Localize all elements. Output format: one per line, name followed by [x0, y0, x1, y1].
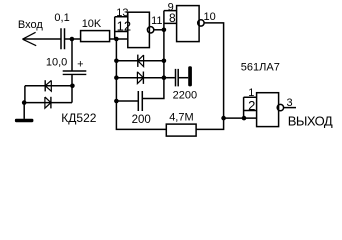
- svg-text:561ЛА7: 561ЛА7: [241, 62, 280, 74]
- svg-text:0,1: 0,1: [54, 12, 69, 24]
- svg-text:12: 12: [117, 19, 131, 34]
- svg-text:13: 13: [116, 7, 128, 19]
- svg-text:11: 11: [151, 15, 162, 27]
- svg-text:Вход: Вход: [18, 19, 43, 31]
- svg-text:КД522: КД522: [61, 111, 96, 125]
- svg-text:10K: 10K: [82, 18, 102, 30]
- svg-text:10: 10: [204, 11, 216, 23]
- svg-text:ВЫХОД: ВЫХОД: [288, 113, 333, 128]
- svg-text:4,7М: 4,7М: [169, 111, 193, 123]
- svg-text:2200: 2200: [173, 89, 197, 101]
- svg-text:+: +: [77, 59, 83, 71]
- svg-text:10,0: 10,0: [46, 57, 67, 69]
- svg-text:8: 8: [169, 11, 176, 25]
- svg-text:3: 3: [287, 97, 293, 109]
- svg-text:200: 200: [132, 114, 151, 126]
- svg-text:2: 2: [248, 98, 255, 113]
